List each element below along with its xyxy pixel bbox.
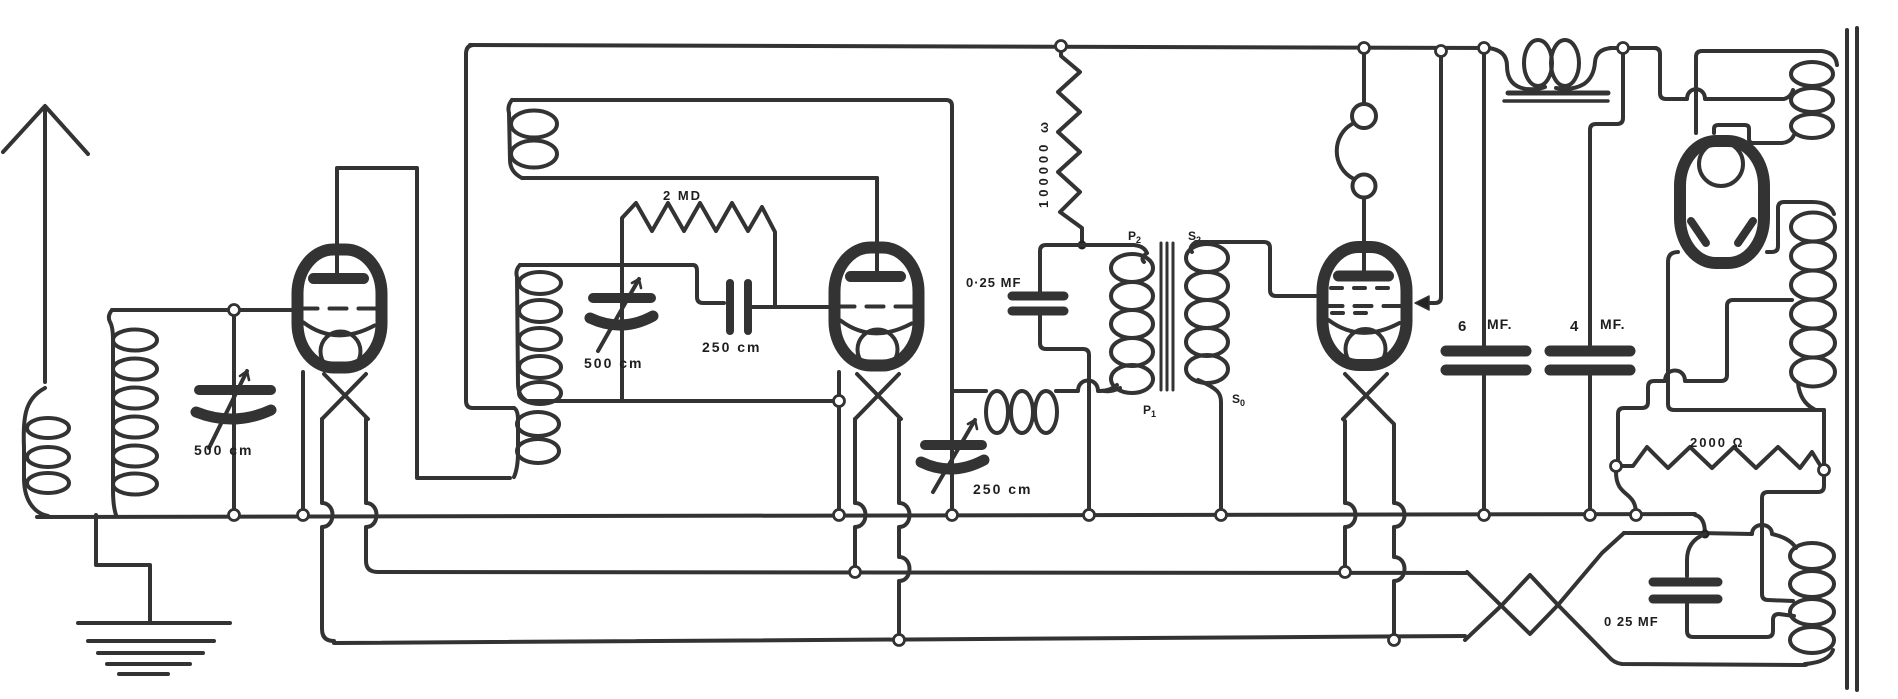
wire R3 right up [1822, 410, 1826, 464]
node V3 leg bottom bus [1389, 635, 1400, 646]
wire junction to C8 top [1687, 534, 1705, 576]
wire R3 right to filament center tap [1762, 476, 1824, 601]
svg-text:500 cm: 500 cm [584, 355, 643, 371]
junction dot [1701, 530, 1710, 539]
SECTION: power supply [1446, 28, 1857, 690]
wire bus A filament [37, 514, 1695, 517]
capacitor C6 6MF [1446, 48, 1526, 515]
coil L2 secondary [109, 310, 157, 515]
node R3 bus A [1631, 510, 1642, 521]
node C7 top [1618, 43, 1629, 54]
junction plate feed [1078, 241, 1087, 250]
wire V3 leg to bus B [1343, 419, 1356, 572]
coil L3 RF transformer primary [514, 408, 559, 477]
svg-text:P2: P2 [1128, 229, 1141, 245]
inductor RFC plate choke [952, 381, 1117, 434]
wire R3 left to bus A [1616, 472, 1636, 514]
wire V1 filament cross [322, 374, 368, 419]
capacitor C3 250cm grid condenser [730, 283, 828, 331]
svg-text:0 25 MF: 0 25 MF [1604, 614, 1659, 629]
svg-text:2000 Ω: 2000 Ω [1690, 435, 1745, 450]
node C4 bus A [947, 510, 958, 521]
triode V1 [298, 250, 382, 372]
capacitor C4 250cm regeneration [921, 420, 984, 515]
wire grid lead tube V1 [112, 308, 294, 312]
wire V2 leg to bus B [855, 419, 866, 572]
node junction grid return [834, 396, 845, 407]
wire V3 leg to bottom bus [1389, 419, 1405, 640]
wire V1 right leg hop to bus B [366, 419, 378, 572]
resistor R1 2MD grid leak [622, 203, 775, 307]
svg-text:0·25 MF: 0·25 MF [966, 275, 1021, 290]
svg-text:100000 ω: 100000 ω [1036, 118, 1051, 208]
coil L5 tickler [508, 100, 557, 178]
transformer core [1847, 28, 1857, 690]
wire V3 grid right with arrow [1424, 51, 1441, 303]
node V1 leg bus A [298, 510, 309, 521]
wire to C5 and P2 [1040, 245, 1082, 292]
wire rectifier filament left lead [1696, 51, 1837, 133]
wire HV center tap to bias [1618, 300, 1792, 460]
wire V1 filament left leg [301, 372, 305, 515]
coil L1 antenna primary [24, 388, 69, 516]
wire V1 plate to RF primary [337, 168, 510, 478]
svg-text:MF.: MF. [1600, 316, 1626, 332]
svg-text:6: 6 [1458, 318, 1467, 335]
svg-text:250 cm: 250 cm [973, 481, 1032, 497]
wire tickler bottom to V2 plate [522, 176, 877, 180]
svg-text:2 MD: 2 MD [663, 188, 702, 203]
wire top bus B plus [470, 45, 1490, 48]
coil HV secondary winding [1791, 213, 1835, 410]
triode V2 [835, 248, 919, 370]
node C5 return bus A [1084, 510, 1095, 521]
coil filament winding [1790, 543, 1834, 664]
wire crossover diamond [1465, 533, 1807, 665]
svg-text:250 cm: 250 cm [702, 339, 761, 355]
resistor R2 100000 ohm [1058, 46, 1082, 243]
svg-text:S0: S0 [1232, 392, 1245, 408]
capacitor C7 4MF [1550, 48, 1630, 515]
wire V1 left leg hop to bottom bus [322, 419, 334, 641]
node C6 bottom bus A [1479, 510, 1490, 521]
wire V2 plate lead [875, 178, 879, 274]
node R3 right [1819, 465, 1830, 476]
node C1 bus [229, 510, 240, 521]
wire bus B filament [378, 572, 1467, 573]
triode V3 [1323, 247, 1407, 369]
svg-text:500 cm: 500 cm [194, 442, 253, 458]
wire tickler top to throttle cap [512, 100, 952, 441]
wire B+ feed to RF primary [466, 45, 514, 408]
wire right plate to HV top [1767, 202, 1834, 252]
node V2 leg bus B [850, 567, 861, 578]
wire S2 top to V3 grid [1196, 242, 1316, 296]
wire rectifier filament right lead [1714, 125, 1794, 143]
node C7 bottom bus A [1585, 510, 1596, 521]
ground [78, 515, 230, 674]
coil rectifier filament winding [1791, 62, 1833, 138]
wire B plus to rectifier filament tap [1623, 48, 1793, 99]
SECTION: left / antenna stage [3, 106, 510, 674]
transformer T1 core [1161, 243, 1173, 390]
wire V3 filament cross [1343, 374, 1389, 419]
svg-text:4: 4 [1570, 318, 1579, 335]
capacitor C2 500cm variable tuning [590, 265, 653, 401]
wire bottom bus [334, 636, 1465, 643]
node R3 left [1611, 461, 1622, 472]
SECTION: audio / coupling stage [966, 46, 1441, 640]
wire filament return detector [527, 399, 839, 403]
capacitor C1 500cm variable [196, 310, 271, 515]
resistor R3 2000 ohm [1622, 447, 1820, 468]
node C1 grid [229, 305, 240, 316]
phone jack J1 [1337, 48, 1376, 273]
node jack top [1359, 43, 1370, 54]
transformer T1 primary P2 [1104, 253, 1153, 393]
svg-text:MF.: MF. [1487, 316, 1513, 332]
wire left plate to HV bottom [1668, 252, 1824, 410]
node V2 leg bottom bus [894, 635, 905, 646]
inductor filter choke [1488, 40, 1612, 101]
wire V2 filament cross [855, 374, 901, 419]
svg-text:P1: P1 [1143, 403, 1156, 419]
capacitor C5 0.25MF [1012, 296, 1089, 515]
SECTION: buses and nodes [37, 41, 1695, 646]
node resistor R2 top [1056, 41, 1067, 52]
node V3 leg bus B [1340, 567, 1351, 578]
node V3 grid feed [1436, 46, 1447, 57]
wire V2 leg to bottom bus [899, 419, 910, 640]
capacitor C8 0.25MF [1653, 582, 1794, 637]
wire grid circuit top [520, 265, 724, 303]
antenna [3, 106, 88, 382]
rectifier tube V4 [1680, 141, 1764, 263]
node S0 bus A [1216, 510, 1227, 521]
node V2 leg bus A [834, 510, 845, 521]
transformer T1 secondary S2 [1186, 242, 1228, 515]
node C6 top [1479, 43, 1490, 54]
SECTION: detector stage [466, 45, 1117, 640]
coil L4 detector secondary [516, 265, 561, 404]
wire bus A end to filament winding top [1695, 515, 1705, 534]
wire V2 left leg [837, 372, 841, 515]
